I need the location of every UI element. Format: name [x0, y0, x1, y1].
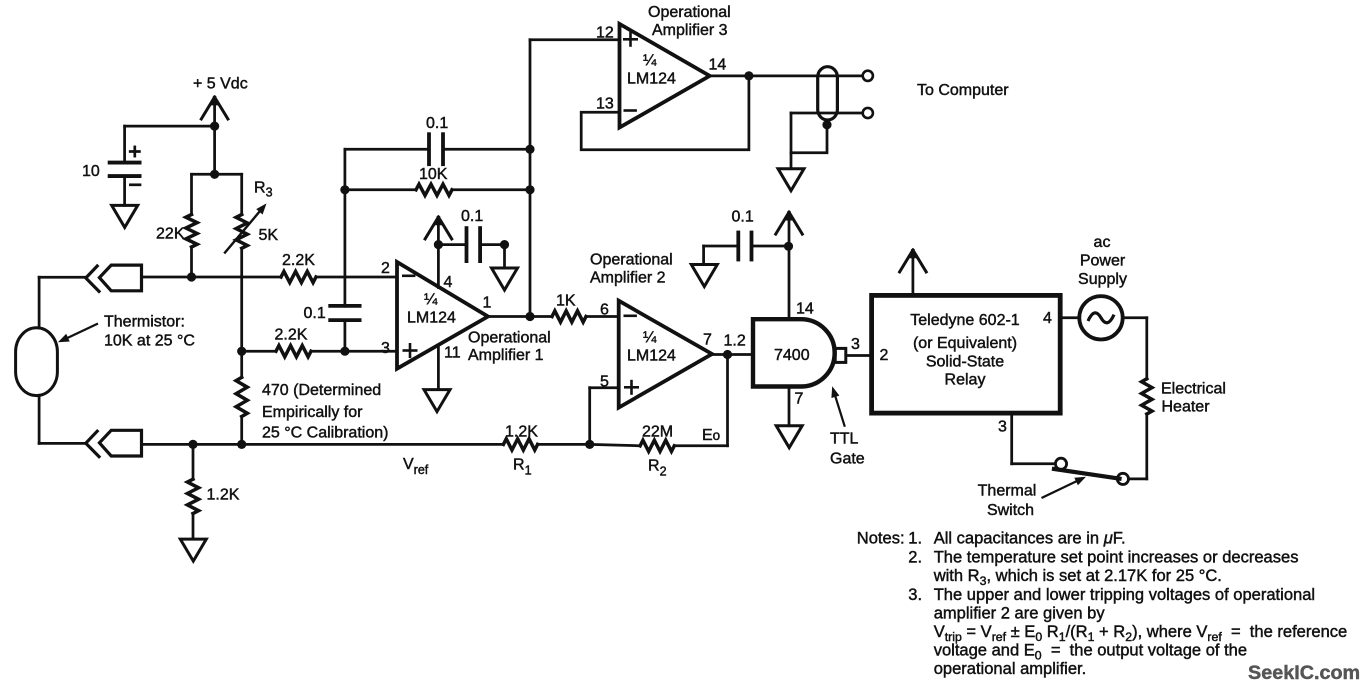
svg-text:Electrical: Electrical: [1161, 381, 1226, 398]
label: Thermal Switch: [978, 483, 1037, 520]
wire top rail to op-amp1 pin 2: [316, 276, 397, 279]
svg-text:Operational: Operational: [648, 4, 731, 21]
pin 13 label: [596, 96, 614, 113]
svg-text:Empirically for: Empirically for: [262, 404, 363, 421]
svg-text:2: 2: [880, 347, 889, 364]
svg-text:14: 14: [709, 57, 727, 74]
wire shield to ground: [790, 153, 793, 169]
svg-text:The upper and lower tripping v: The upper and lower tripping voltages of…: [934, 585, 1315, 604]
label: Operational Amplifier 2: [590, 252, 673, 287]
wire 1.2K top lead: [192, 444, 195, 479]
node: 10K right junction: [525, 185, 534, 194]
wire lower 2.2K left lead: [242, 350, 276, 353]
svg-text:4: 4: [444, 274, 453, 291]
wire feedback left column: [344, 149, 347, 306]
svg-text:3: 3: [851, 336, 860, 353]
svg-text:25 °C Calibration): 25 °C Calibration): [262, 425, 388, 442]
resistor 1K: [552, 293, 586, 323]
label: op-amp2 minus input: [625, 314, 636, 317]
pin 3 label (relay): [998, 419, 1007, 436]
pin 2 label (relay): [880, 347, 889, 364]
wire 10K left lead: [345, 188, 416, 191]
svg-text:3: 3: [998, 419, 1007, 436]
svg-text:Amplifier 2: Amplifier 2: [590, 270, 666, 287]
wire op-amp3 output: [710, 75, 863, 78]
svg-text:0.1: 0.1: [304, 305, 326, 322]
pin 11 wire: [437, 345, 440, 390]
node: cap/pin3 junction: [340, 347, 349, 356]
node: output/feedback junction: [525, 312, 534, 321]
node: gate power junction: [784, 242, 793, 251]
svg-text:TTL: TTL: [830, 431, 859, 448]
wire 10K right lead: [452, 188, 530, 191]
svg-text:6: 6: [600, 302, 609, 319]
resistor R1 1.2K: [503, 424, 538, 451]
node: divider top junction: [210, 170, 219, 179]
wire bypass cap right lead: [480, 243, 504, 246]
node: pin5 / R1R2 junction: [585, 440, 594, 449]
svg-text:LM124: LM124: [407, 310, 456, 327]
thermistor 10K at 25 C: [16, 328, 58, 396]
label: op-amp2 1/4 LM124: [627, 330, 676, 365]
svg-text:2.2K: 2.2K: [275, 327, 308, 344]
pin 4 label: [444, 274, 453, 291]
svg-text:Thermal: Thermal: [978, 483, 1037, 500]
svg-text:1.: 1.: [908, 529, 922, 548]
svg-text:Power: Power: [1080, 253, 1126, 270]
wire cap to pin3 rail: [344, 320, 347, 351]
svg-text:Supply: Supply: [1078, 271, 1127, 288]
label: op-amp3 1/4 LM124: [627, 53, 676, 88]
wire rail to R2: [590, 444, 640, 445]
svg-text:2: 2: [381, 260, 390, 277]
ground (below 1.2K): [180, 539, 206, 561]
svg-text:22M: 22M: [642, 424, 673, 441]
wire op-amp1 output: [488, 315, 552, 318]
ground (op-amp1 bypass): [492, 268, 518, 290]
node: lower input junction: [237, 347, 246, 356]
wire R2 to Eo corner: [674, 444, 727, 447]
svg-text:7: 7: [795, 391, 804, 408]
wire cap-10 to ground: [123, 176, 126, 205]
svg-text:ac: ac: [1094, 234, 1111, 251]
wire 1.2K bottom lead: [192, 514, 195, 540]
wire bypass to ground: [503, 245, 506, 268]
wire bypass cap left lead: [438, 243, 466, 246]
resistor 2.2K (upper): [281, 252, 316, 283]
power +5 Vdc supply arrow: [193, 76, 248, 127]
svg-text:4: 4: [1043, 310, 1052, 327]
wire shield return: [791, 112, 863, 115]
terminal circle (to computer, return): [863, 108, 873, 118]
svg-text:+ 5 Vdc: + 5 Vdc: [193, 76, 248, 93]
svg-text:Teledyne 602-1: Teledyne 602-1: [910, 312, 1020, 329]
svg-text:0.1: 0.1: [461, 208, 483, 225]
wire 22K top lead: [190, 174, 193, 214]
svg-text:R3: R3: [254, 180, 273, 200]
svg-text:¼: ¼: [424, 292, 438, 309]
svg-text:5K: 5K: [259, 227, 279, 244]
capacitor 0.1 (gate bypass): [732, 209, 754, 260]
wire pin 5 lead: [590, 388, 619, 445]
svg-text:Eo: Eo: [702, 427, 720, 444]
wire relay pin 4 to ac source: [1060, 316, 1079, 319]
wire right feedback column: [529, 40, 532, 317]
svg-text:12: 12: [596, 25, 614, 42]
label: op-amp1 1/4 LM124: [407, 292, 456, 327]
thermal switch: [1054, 458, 1129, 484]
ac power supply source: [1079, 296, 1122, 339]
power arrow (relay): [900, 249, 927, 295]
wire R3 top lead: [240, 174, 243, 214]
svg-text:amplifier 2 are given by: amplifier 2 are given by: [934, 604, 1106, 623]
power arrow (gate V+): [776, 211, 803, 246]
node: output/feedback junction (op3): [744, 71, 753, 80]
svg-text:3: 3: [381, 340, 390, 357]
node: feedback top right junction: [525, 145, 534, 154]
label: To Computer: [917, 82, 1009, 99]
svg-text:Amplifier 3: Amplifier 3: [652, 22, 728, 39]
resistor 10K: [416, 166, 452, 195]
svg-text:2.2K: 2.2K: [282, 252, 315, 269]
label: op-amp2 plus input: [625, 381, 637, 393]
svg-text:LM124: LM124: [627, 71, 676, 88]
svg-text:Switch: Switch: [987, 502, 1034, 519]
wire ac source to heater: [1123, 318, 1147, 379]
svg-text:10K at 25 °C: 10K at 25 °C: [104, 333, 195, 350]
label: Vref: [403, 456, 429, 477]
pin 12 label: [596, 25, 614, 42]
svg-text:Notes:: Notes:: [857, 529, 905, 548]
resistor 2.2K (lower): [275, 327, 312, 357]
svg-text:1.2: 1.2: [724, 333, 746, 350]
inverter bubble (square): [835, 348, 846, 362]
power arrow (op-amp1 V+): [425, 216, 452, 245]
pin 2 label: [381, 260, 390, 277]
capacitor 0.1 (input filter): [304, 305, 360, 322]
ground (gate bypass): [691, 265, 717, 287]
wire +5V to capacitor C-10: [125, 126, 215, 163]
pin 4 label (relay): [1043, 310, 1052, 327]
node: 470 junction: [237, 440, 246, 449]
node: pin4 bypass junction: [434, 240, 443, 249]
svg-text:Vref: Vref: [403, 456, 429, 477]
ground (cable shield): [778, 169, 804, 191]
wire relay pin 3: [1012, 413, 1055, 464]
capacitor 0.1 (feedback): [426, 115, 448, 164]
svg-text:470 (Determined: 470 (Determined: [262, 382, 381, 399]
node: shield bottom: [822, 120, 831, 129]
node: feedback/10K left junction: [340, 185, 349, 194]
pin 11 label: [444, 345, 461, 362]
wire heater to switch: [1129, 414, 1147, 479]
svg-text:Operational: Operational: [590, 252, 673, 269]
resistor 22K: [156, 215, 197, 248]
pin 4 wire: [437, 245, 440, 288]
svg-text:7: 7: [703, 332, 712, 349]
svg-text:11: 11: [444, 345, 461, 362]
resistor: electrical heater: [1142, 379, 1152, 414]
notes text block: [857, 529, 1347, 679]
node: op-amp2 output junction: [723, 350, 732, 359]
label: Operational Amplifier 1: [468, 330, 551, 365]
wire gate pin 7: [788, 387, 791, 426]
svg-text:1: 1: [483, 295, 492, 312]
connector (thermistor top lead): [86, 265, 142, 291]
pin 7 label (gate): [795, 391, 804, 408]
wire 22K bottom lead: [190, 247, 193, 277]
node: +5V rail junction to filter cap: [210, 122, 219, 131]
node: bypass right junction: [500, 240, 509, 249]
label: TTL Gate: [830, 431, 865, 468]
svg-text:Thermistor:: Thermistor:: [104, 314, 185, 331]
wire R3 wiper column: [240, 277, 243, 351]
wire op-amp3 pin 12 lead: [530, 38, 620, 41]
potentiometer R3 5K: [225, 180, 278, 253]
svg-text:R2: R2: [648, 458, 667, 479]
svg-text:0.1: 0.1: [426, 115, 448, 132]
wire gate bypass left: [704, 246, 739, 265]
svg-text:Amplifier 1: Amplifier 1: [468, 347, 544, 364]
label: 470 determined empirically: [262, 382, 388, 442]
wire R3 bottom lead crossing node row: [240, 248, 243, 277]
svg-text:1.2K: 1.2K: [505, 424, 538, 441]
wire 1K to op-amp2 pin 6: [586, 315, 619, 318]
ground (below cap 10): [112, 205, 138, 227]
svg-text:R1: R1: [513, 457, 532, 478]
wire shield drop: [791, 113, 827, 153]
wire thermistor bottom: [39, 442, 85, 445]
wire lower rail to op-amp1 pin 3: [311, 350, 397, 353]
svg-text:14: 14: [796, 301, 814, 318]
svg-text:22K: 22K: [156, 226, 185, 243]
node: 1.2K junction: [188, 440, 197, 449]
label: pins 1,2: [724, 333, 746, 350]
wire gate pin 14: [788, 246, 791, 319]
svg-text:Operational: Operational: [468, 330, 551, 347]
op-amp U3 (1/4 LM124): [620, 24, 710, 128]
label: op-amp3 minus input: [625, 109, 636, 112]
wire bottom rail (Vref): [142, 443, 504, 446]
svg-text:Heater: Heater: [1162, 399, 1211, 416]
label: op-amp1 plus input: [404, 344, 416, 356]
svg-text:To Computer: To Computer: [917, 82, 1009, 99]
op-amp U2 (1/4 LM124): [619, 301, 712, 408]
pin 3 label (gate out): [851, 336, 860, 353]
wire op-amp3 feedback: [581, 76, 749, 150]
label: ac Power Supply: [1078, 234, 1127, 288]
wire rail R1-R2 segment: [538, 443, 590, 446]
wire gate bypass right: [752, 245, 789, 248]
wire thermistor top: [39, 276, 85, 279]
svg-text:7400: 7400: [774, 347, 810, 364]
svg-text:0.1: 0.1: [732, 209, 754, 226]
label: Eo: [702, 427, 720, 444]
pin 7 label: [703, 332, 712, 349]
ground (op-amp1 pin 11): [424, 390, 450, 412]
resistor R2 22M: [640, 424, 674, 452]
label: Operational Amplifier 3: [648, 4, 731, 39]
solid-state relay box: [872, 295, 1061, 413]
wire thermistor left upper: [38, 277, 41, 328]
terminal circle (to computer, signal): [863, 71, 873, 81]
wire feedback top right: [443, 148, 530, 151]
wire +5V down to divider node: [213, 126, 216, 174]
resistor 470: [236, 377, 247, 416]
resistor 1.2K: [187, 479, 239, 513]
label: R2: [648, 458, 667, 479]
label: Thermistor 10K at 25 C: [58, 314, 195, 350]
svg-text:All capacitances are in μF.: All capacitances are in μF.: [934, 529, 1126, 548]
ground (gate pin 7): [776, 426, 802, 448]
wire Eo feedback vertical: [726, 355, 729, 446]
svg-text:LM124: LM124: [627, 348, 676, 365]
label: op-amp3 plus input: [624, 33, 636, 45]
NAND gate 7400: [753, 319, 835, 386]
svg-text:Solid-State: Solid-State: [926, 354, 1004, 371]
svg-text:Gate: Gate: [830, 451, 865, 468]
op-amp U1 (1/4 LM124): [397, 262, 488, 369]
wire thermistor left lower: [38, 396, 41, 444]
svg-text:Relay: Relay: [945, 372, 986, 389]
svg-text:¼: ¼: [643, 330, 657, 347]
pin 3 label: [381, 340, 390, 357]
label: Electrical Heater: [1161, 381, 1226, 416]
node: 22K / rail junction: [187, 272, 196, 281]
capacitor 0.1 (op-amp1 bypass): [461, 208, 483, 261]
svg-text:10: 10: [82, 163, 100, 180]
connector (thermistor bottom lead): [86, 430, 142, 456]
label: op-amp1 minus input: [403, 274, 414, 277]
label: R1: [513, 457, 532, 478]
svg-text:operational amplifier.: operational amplifier.: [934, 659, 1087, 678]
watermark SeekIC.com: [1248, 662, 1360, 684]
pin 14 label: [709, 57, 727, 74]
svg-text:2.: 2.: [908, 548, 922, 567]
wire op-amp2 output: [712, 353, 753, 356]
svg-text:10K: 10K: [419, 166, 448, 183]
svg-text:13: 13: [596, 96, 614, 113]
svg-text:¼: ¼: [643, 53, 657, 70]
resistor 470 leads: [240, 351, 243, 444]
capacitor 10 uF (polarized): [82, 147, 140, 185]
svg-text:3.: 3.: [908, 585, 922, 604]
svg-text:SeekIC.com: SeekIC.com: [1248, 662, 1360, 684]
svg-text:(or Equivalent): (or Equivalent): [913, 335, 1017, 352]
pin 1 label: [483, 295, 492, 312]
label: Teledyne 602-1 relay: [910, 312, 1020, 389]
wire top rail left: [142, 276, 282, 279]
pin 5 label: [600, 374, 609, 391]
svg-text:The temperature set point incr: The temperature set point increases or d…: [934, 548, 1299, 567]
wire feedback top left: [345, 148, 429, 151]
label: Thermal Switch pointer: [1043, 477, 1087, 498]
svg-text:1.2K: 1.2K: [207, 487, 240, 504]
wire divider top tee: [192, 173, 242, 176]
cable shield capsule: [818, 67, 838, 120]
svg-text:1K: 1K: [556, 293, 576, 310]
pin 14 label (gate): [796, 301, 814, 318]
label: TTL Gate pointer: [831, 386, 844, 425]
wire gate output pin 3: [846, 354, 871, 357]
pin 6 label: [600, 302, 609, 319]
